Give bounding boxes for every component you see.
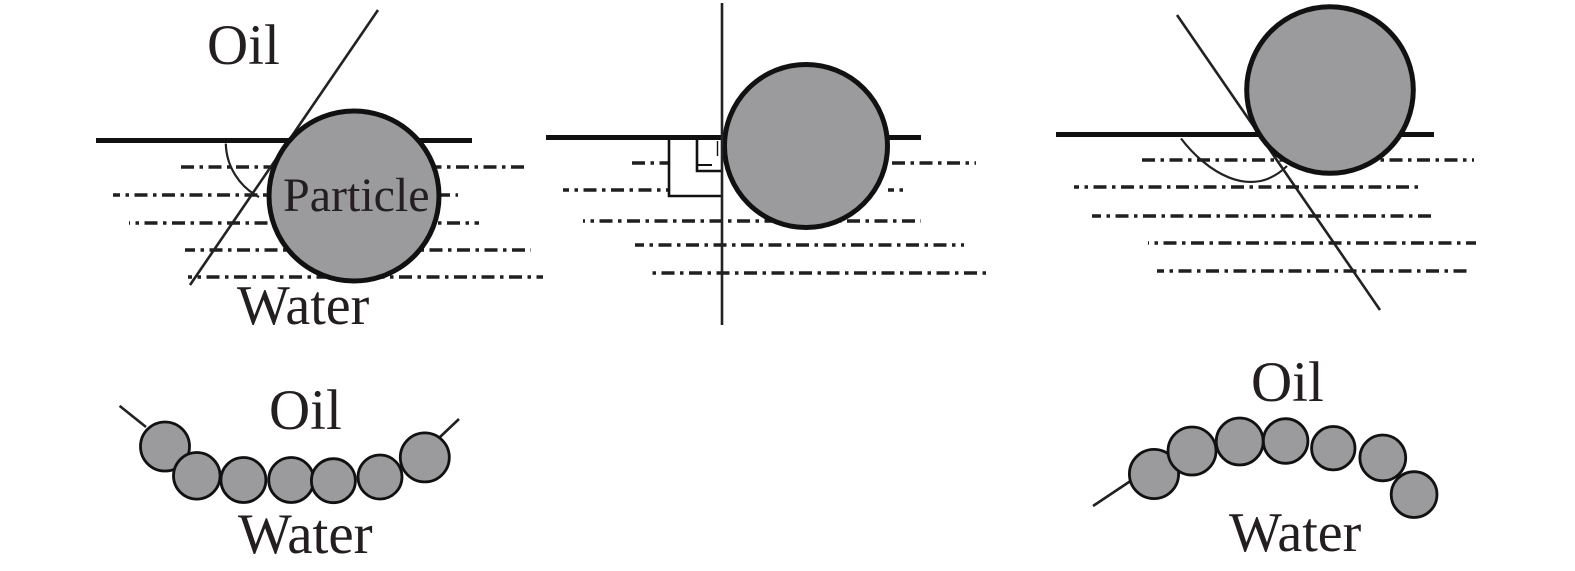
water hatch row 5 (middle panel) — [648, 271, 988, 275]
interface tick left (bottom-right chain) — [1093, 480, 1132, 506]
particle circle (left panel) — [269, 111, 439, 281]
chain particle 3 (bottom-right) — [1216, 418, 1263, 465]
water hatch row 5 (left panel) — [188, 275, 543, 279]
chain particle 2 (bottom-right) — [1168, 427, 1216, 475]
tangent line (left panel) — [190, 10, 378, 285]
svg-text:Particle: Particle — [283, 169, 430, 222]
chain particle 1 (bottom-left) — [141, 422, 190, 471]
water hatch row 3 (right panel) — [1092, 214, 1434, 218]
particle circle (right panel) — [1247, 7, 1414, 174]
chain particle 6 (bottom-left) — [358, 455, 402, 499]
svg-text:Water: Water — [238, 503, 373, 566]
water hatch row 3 (left panel) — [129, 221, 479, 225]
water hatch row 1 (right panel) — [1142, 158, 1474, 162]
water hatch row 4 (left panel) — [185, 248, 531, 252]
right-angle tick horizontal (middle panel) — [698, 164, 713, 166]
chain particle 6 (bottom-right) — [1360, 435, 1406, 481]
oil-water interface line (middle panel) — [546, 135, 921, 140]
particle circle (middle panel) — [725, 65, 888, 228]
water hatch row 5 (right panel) — [1157, 269, 1472, 273]
interface tick right (bottom-left chain) — [440, 419, 459, 437]
chain particle 1 (bottom-right) — [1129, 449, 1178, 498]
chain particle 4 (bottom-left) — [269, 458, 314, 503]
oil-water interface line (left panel) — [96, 138, 472, 143]
oil-water interface line (right panel) — [1056, 132, 1434, 137]
water hatch row 2 (left panel) — [113, 193, 458, 197]
water hatch row 4 (middle panel) — [635, 243, 964, 247]
chain particle 7 (bottom-left) — [400, 433, 449, 482]
chain particle 5 (bottom-right) — [1312, 427, 1355, 470]
interface tick left (bottom-left chain) — [120, 406, 146, 427]
contact angle arc (right panel) — [1181, 139, 1287, 182]
right-angle bracket large (middle panel) — [669, 140, 721, 197]
right-angle bracket small (middle panel) — [697, 140, 721, 172]
svg-text:Oil: Oil — [1251, 351, 1324, 414]
tangent line (right panel) — [1177, 15, 1380, 310]
right-angle tick vertical (middle panel) — [717, 141, 719, 156]
chain particle 7 (bottom-right) — [1391, 472, 1437, 518]
water hatch row 1 (left panel) — [181, 165, 525, 169]
svg-text:Water: Water — [237, 275, 370, 337]
contact angle arc (left panel) — [226, 144, 259, 197]
svg-text:Oil: Oil — [207, 14, 280, 77]
chain particle 5 (bottom-left) — [311, 459, 355, 503]
water hatch row 1 (middle panel) — [632, 161, 976, 165]
chain particle 4 (bottom-right) — [1263, 419, 1308, 464]
water hatch row 4 (right panel) — [1148, 241, 1476, 245]
vertical tangent line (middle panel) — [721, 3, 724, 325]
water hatch row 2 (middle panel) — [563, 188, 906, 192]
water hatch row 2 (right panel) — [1074, 185, 1419, 189]
chain particle 3 (bottom-left) — [221, 458, 266, 503]
water hatch row 3 (middle panel) — [583, 219, 921, 223]
chain particle 2 (bottom-left) — [174, 453, 221, 500]
svg-text:Oil: Oil — [269, 379, 342, 442]
svg-text:Water: Water — [1229, 502, 1362, 564]
